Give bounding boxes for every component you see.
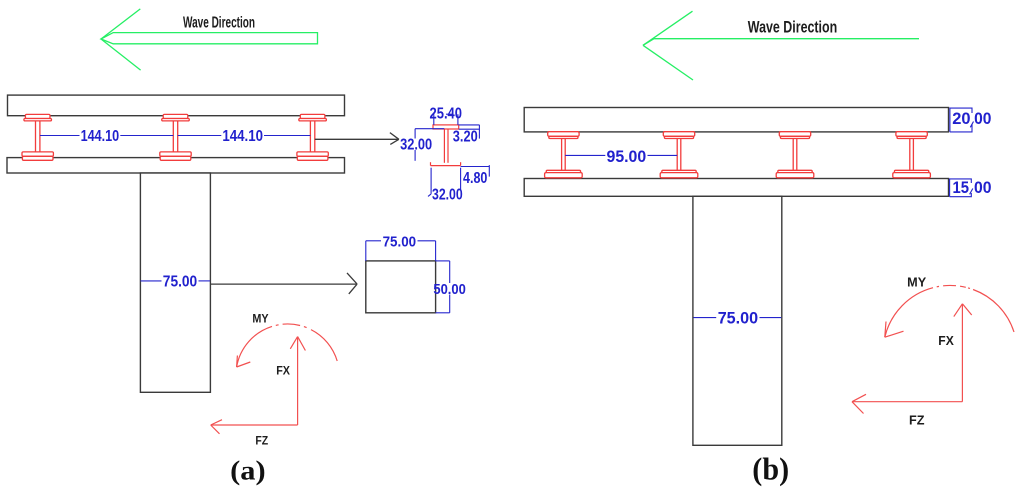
svg-text:FZ: FZ — [255, 436, 268, 448]
dimension 25.40 (detail top flange width) — [434, 114, 458, 125]
svg-text:75.00: 75.00 — [163, 274, 197, 291]
wave direction arrow (a) — [101, 9, 318, 70]
pier column (a) — [140, 173, 210, 392]
dimension 32.00 (detail bottom flange width) — [428, 168, 461, 197]
axes (b): MY moment arc — [885, 285, 1014, 337]
svg-text:95.00: 95.00 — [607, 147, 647, 166]
svg-text:75.00: 75.00 — [718, 309, 758, 328]
leader arrow to girder detail (a) — [315, 133, 399, 145]
girder I-beam 1 (b) — [545, 132, 583, 178]
axes (a): FX arrow — [290, 337, 305, 425]
axes (b): FZ arrow — [852, 394, 962, 413]
dimension 95.00 (b) — [565, 154, 677, 156]
svg-text:00: 00 — [974, 179, 992, 197]
girder I-beam 2 (a) — [160, 114, 191, 160]
dimension 3.20 (detail flange thickness) — [459, 125, 480, 139]
svg-text:144.10: 144.10 — [222, 128, 263, 145]
dimension 75.00 (pier detail width) — [366, 241, 436, 261]
svg-text:144.10: 144.10 — [81, 128, 120, 145]
svg-text:15: 15 — [953, 179, 970, 197]
dimension 20,00 (top slab thickness b) — [950, 108, 974, 132]
svg-text:(a): (a) — [230, 455, 266, 486]
svg-text:(b): (b) — [752, 450, 789, 486]
pier detail rectangle — [366, 261, 436, 313]
axes (a): MY arrowhead — [237, 356, 251, 368]
bottom slab (b) — [524, 179, 948, 197]
svg-text:FX: FX — [938, 333, 954, 348]
svg-text:50.00: 50.00 — [433, 282, 465, 298]
pier column (b) — [693, 196, 782, 445]
top slab (a) — [8, 95, 345, 116]
svg-text:Wave Direction: Wave Direction — [748, 18, 837, 37]
top slab (b) — [524, 108, 948, 132]
axes (b): MY arrowhead — [885, 322, 904, 338]
dimension 144.10 #2 (a) — [178, 135, 311, 137]
dimension 144.10 #1 (a) — [40, 135, 173, 137]
girder I-beam 3 (b) — [776, 132, 814, 178]
svg-text:MY: MY — [252, 314, 269, 326]
svg-text:Wave Direction: Wave Direction — [183, 14, 255, 31]
svg-text:FZ: FZ — [909, 413, 925, 428]
axes (a): MY moment arc — [237, 324, 338, 367]
bottom slab (a) — [7, 158, 345, 173]
dimension 75.00 (pier b) — [694, 317, 782, 319]
svg-text:4.80: 4.80 — [463, 170, 487, 187]
girder detail: bottom flange — [431, 162, 461, 165]
dimension 75.00 (pier a) — [141, 280, 211, 282]
girder I-beam 1 (a) — [22, 114, 53, 160]
leader arrow to pier detail (a) — [210, 273, 357, 294]
girder I-beam 2 (b) — [660, 132, 698, 178]
girder detail: top flange — [433, 125, 459, 129]
dimension 32,00 (detail height left) — [415, 129, 444, 161]
girder I-beam 4 (b) — [893, 132, 931, 178]
svg-text:00: 00 — [974, 110, 991, 128]
girder detail: web — [443, 129, 445, 163]
svg-text:32.00: 32.00 — [432, 187, 463, 204]
svg-text:75.00: 75.00 — [383, 234, 417, 250]
dimension 50.00 (pier detail height) — [436, 261, 450, 313]
svg-text:32.00: 32.00 — [400, 136, 432, 153]
axes (a): FZ arrow — [211, 420, 298, 434]
svg-text:20: 20 — [952, 110, 970, 128]
dimension 4.80 (detail bottom flange thickness) — [461, 165, 490, 177]
axes (b): FX arrow — [954, 304, 972, 402]
girder I-beam 3 (a) — [297, 114, 328, 160]
svg-text:3.20: 3.20 — [453, 129, 478, 146]
wave direction arrow (b) — [643, 11, 919, 80]
dimension 15,00 (bottom slab thickness b) — [950, 179, 973, 197]
svg-text:FX: FX — [276, 366, 290, 378]
svg-text:25.40: 25.40 — [430, 106, 463, 123]
svg-text:MY: MY — [907, 276, 927, 290]
